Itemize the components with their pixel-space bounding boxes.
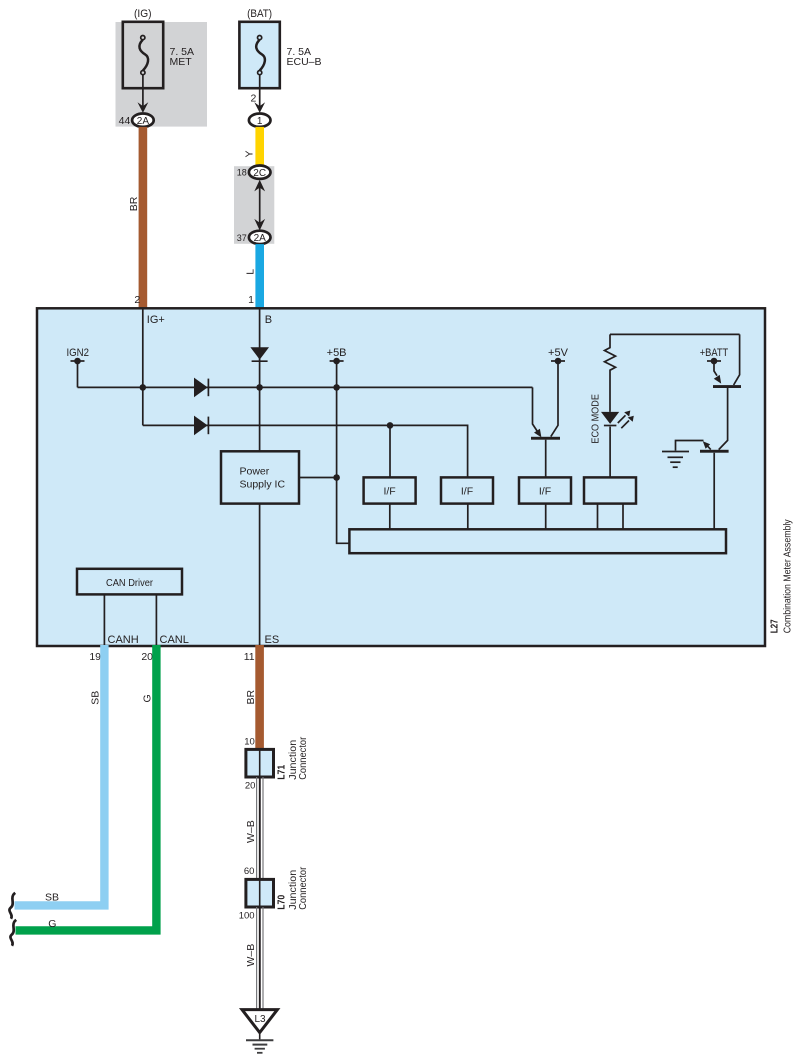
svg-text:IG+: IG+: [147, 314, 165, 326]
wire G (green) CANL: [16, 645, 157, 930]
svg-text:Combination Meter Assembly: Combination Meter Assembly: [782, 519, 794, 634]
svg-text:Y: Y: [244, 150, 256, 157]
wire CANL: [155, 594, 157, 645]
diode D2: [194, 416, 208, 436]
wire BR (brown) ES to L71: [255, 645, 264, 750]
svg-text:2C: 2C: [253, 168, 266, 179]
svg-text:SB: SB: [45, 891, 59, 903]
wire ES vertical: [259, 504, 261, 645]
svg-text:ES: ES: [265, 634, 280, 646]
wire I/F1 to bus: [389, 504, 391, 530]
junction dot 5B/rail1: [333, 384, 340, 391]
wire driver box to bus left: [597, 504, 599, 530]
svg-text:11: 11: [244, 651, 255, 663]
wire IGN2 stub down: [77, 361, 79, 387]
junction dot 5B/PSU: [333, 474, 340, 481]
connector 2A (pin 44) ellipse: [132, 114, 154, 127]
arrow up toward 2C: [254, 180, 265, 192]
transistor Q2 bar: [713, 385, 741, 388]
transistor Q3 bar: [700, 450, 729, 453]
svg-text:B: B: [265, 314, 272, 326]
svg-text:2: 2: [134, 294, 140, 306]
label Junction Connector (L70): [287, 866, 309, 909]
svg-text:ECU–B: ECU–B: [287, 56, 322, 68]
wire +BATT to Q2 emitter: [714, 361, 717, 376]
wire into I/F1: [389, 425, 391, 477]
svg-text:L: L: [245, 269, 257, 275]
svg-text:60: 60: [244, 866, 255, 877]
wire Q3 collector to bus: [713, 453, 715, 530]
node +5B: [327, 347, 347, 365]
svg-text:W–B: W–B: [245, 944, 257, 967]
svg-text:I/F: I/F: [539, 486, 551, 498]
svg-text:MET: MET: [170, 56, 193, 68]
fuse 7.5A ECU-B symbol: [256, 36, 265, 75]
resistor R1: [605, 334, 616, 412]
svg-text:+5V: +5V: [548, 347, 569, 359]
wire top rail to +BATT transistor: [610, 333, 740, 335]
svg-text:CANL: CANL: [160, 634, 189, 646]
svg-text:SB: SB: [90, 691, 102, 705]
wire rail1 corner into Q1 emitter: [533, 387, 538, 431]
svg-text:19: 19: [89, 651, 101, 663]
wire SB (light blue) CANH: [15, 645, 105, 905]
I/F box 1: [364, 477, 416, 503]
wire horizontal rail 1: [78, 386, 533, 388]
wire W-B segment L71 to L70: [257, 777, 263, 879]
svg-text:Supply IC: Supply IC: [240, 479, 286, 491]
arrow terminal at MET output: [138, 102, 149, 113]
svg-text:18: 18: [237, 168, 247, 178]
svg-text:1: 1: [248, 294, 254, 306]
junction dot IG+/rail1: [140, 384, 147, 391]
I/F box 2: [441, 477, 493, 503]
node +BATT: [700, 347, 729, 365]
svg-text:Power: Power: [240, 466, 270, 478]
arrow down toward 2A: [254, 219, 265, 231]
Power Supply IC box: [221, 451, 299, 503]
svg-text:L70: L70: [275, 895, 287, 910]
Q3 emitter arrowhead: [703, 441, 711, 449]
junction connector L70 box: [246, 878, 274, 908]
wire from fuse ECU-B to connector: [259, 75, 261, 111]
transistor Q1 bar: [531, 437, 560, 440]
svg-text:ECO MODE: ECO MODE: [591, 394, 602, 444]
wire Y (yellow): [255, 127, 264, 167]
Q1 right lead to +5V: [551, 361, 558, 437]
junction connector L71 box: [246, 748, 274, 778]
combination meter assembly box L27: [37, 308, 765, 646]
svg-text:G: G: [48, 918, 56, 930]
bus bar box: [349, 529, 726, 553]
LED ECO MODE: [601, 412, 619, 478]
ground inside box: [662, 452, 689, 468]
ground point L3 triangle: [242, 1010, 277, 1033]
junction wire between 2C and 2A: [259, 183, 261, 227]
break squiggle G: [10, 920, 16, 946]
Q2 emitter arrowhead: [714, 375, 721, 384]
svg-text:100: 100: [239, 910, 255, 921]
diode D1: [194, 378, 208, 398]
fuse 7.5A MET box: [123, 22, 163, 88]
svg-text:G: G: [142, 694, 154, 702]
wire L (blue) to meter pin 1: [255, 244, 264, 309]
fuse 7.5A ECU-B box: [239, 22, 279, 88]
svg-text:37: 37: [237, 233, 247, 243]
wire Q2 to Q3: [719, 388, 728, 450]
wire L3 to ground: [259, 1033, 261, 1040]
svg-text:I/F: I/F: [383, 486, 395, 498]
wire horizontal rail 2: [143, 425, 468, 477]
ground symbol: [246, 1040, 273, 1053]
svg-text:2: 2: [250, 93, 256, 105]
svg-text:Connector: Connector: [297, 736, 309, 779]
svg-text:I/F: I/F: [461, 486, 473, 498]
svg-text:BR: BR: [245, 689, 257, 704]
fuse value label 7.5A ECU-B: [287, 46, 322, 68]
wire W-B segment L70 to ground: [257, 907, 263, 1009]
svg-text:(IG): (IG): [134, 8, 152, 20]
svg-text:BR: BR: [128, 196, 140, 211]
wire IG+ vertical: [142, 310, 144, 426]
svg-text:W–B: W–B: [245, 820, 257, 843]
Q1 emitter arrowhead: [534, 429, 541, 438]
svg-text:+BATT: +BATT: [700, 347, 729, 359]
wire Q3 emitter to ground: [676, 441, 704, 451]
svg-text:2A: 2A: [137, 116, 150, 127]
svg-text:L71: L71: [275, 765, 287, 780]
node IGN2: [67, 347, 90, 365]
svg-text:+5B: +5B: [327, 347, 347, 359]
driver box (unlabeled): [584, 477, 636, 503]
junction dot rail2/IF1: [387, 422, 394, 429]
break squiggle SB: [9, 893, 15, 919]
svg-text:1: 1: [257, 116, 263, 127]
wire I/F2 to bus: [467, 504, 469, 530]
wire PSU right to 5B: [299, 477, 337, 479]
svg-text:20: 20: [141, 651, 153, 663]
wire CANH: [103, 594, 105, 645]
svg-text:20: 20: [245, 781, 256, 792]
svg-text:10: 10: [244, 736, 255, 747]
svg-text:L27: L27: [769, 619, 781, 633]
junction block gray background (2C/2A): [234, 166, 274, 244]
wire B vertical: [259, 310, 261, 452]
Q2 collector lead to top rail: [734, 334, 740, 385]
connector 2C ellipse: [249, 166, 271, 179]
diode D3 on B line: [250, 347, 269, 361]
svg-text:44: 44: [119, 115, 131, 127]
fuse value label 7.5A MET: [170, 46, 195, 68]
wire Q1 collector-leg into I/F3: [545, 440, 547, 478]
wire I/F3 to bus: [545, 504, 547, 530]
svg-text:2A: 2A: [254, 233, 267, 244]
svg-text:Connector: Connector: [297, 866, 309, 909]
wire BR (brown) fuse to meter pin 2: [139, 127, 148, 310]
svg-text:L3: L3: [254, 1014, 266, 1025]
svg-text:CANH: CANH: [108, 634, 139, 646]
wire +5B vertical to bus: [337, 361, 350, 543]
CAN Driver box: [77, 569, 182, 595]
arrow terminal at ECU-B output: [254, 102, 265, 113]
node +5V: [548, 347, 569, 365]
svg-text:(BAT): (BAT): [247, 8, 272, 20]
wire driver box to bus right: [622, 504, 624, 530]
connector 1 ellipse: [249, 114, 271, 127]
connector 2A (pin 37) ellipse: [249, 231, 271, 244]
relay block gray background (IG side): [116, 22, 208, 127]
svg-text:CAN Driver: CAN Driver: [106, 577, 153, 589]
LED emission arrows: [618, 411, 634, 429]
label Junction Connector (L71): [287, 736, 309, 779]
I/F box 3: [519, 477, 571, 503]
wire from fuse MET to connector: [142, 75, 144, 111]
junction dot B/rail1: [256, 384, 263, 391]
fuse 7.5A MET symbol: [139, 36, 148, 75]
svg-text:IGN2: IGN2: [67, 347, 90, 359]
